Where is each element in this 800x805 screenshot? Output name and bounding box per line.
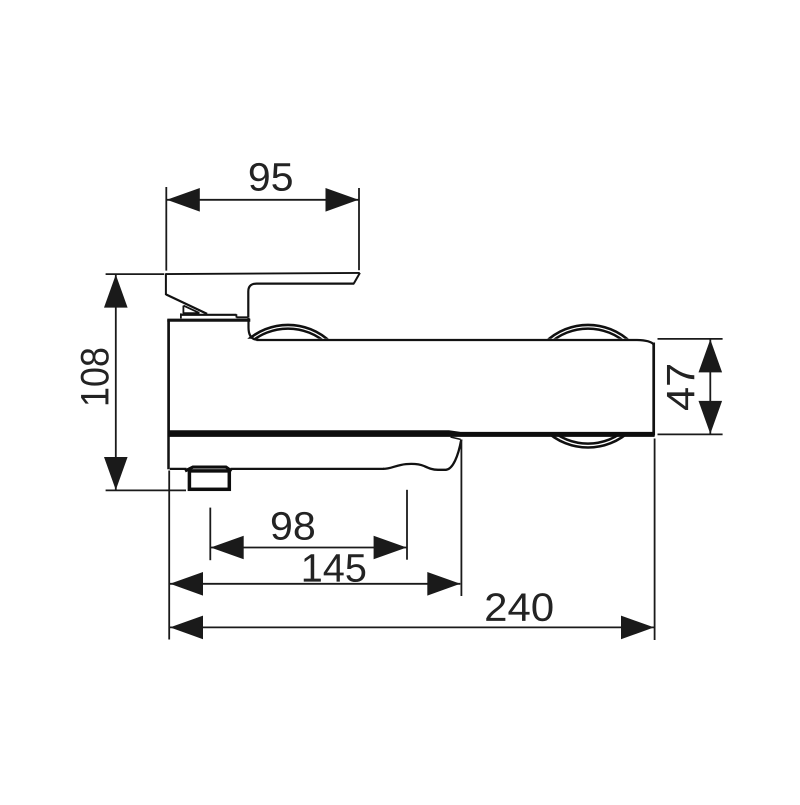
handle set-screw wedge bbox=[183, 306, 200, 314]
dim 145 and 240 shared left extension line bbox=[168, 471, 170, 640]
lever underside and base right edge bbox=[248, 284, 354, 318]
dim 47 bottom extension line bbox=[658, 433, 723, 435]
dim 98 right extension line bbox=[406, 490, 408, 560]
handle collar lower line bbox=[236, 316, 247, 318]
dim 47 bottom arrow bbox=[699, 401, 723, 434]
dim 98 left extension line bbox=[209, 508, 211, 561]
dim 240 left arrow bbox=[170, 616, 203, 640]
dim 47 label bbox=[667, 365, 694, 410]
dim 240 right extension line bbox=[654, 439, 656, 641]
dim 95 right extension line bbox=[358, 188, 360, 270]
dim 108 bottom extension line bbox=[106, 489, 186, 491]
dim 108 label bbox=[81, 349, 109, 405]
dim 95 dimension line bbox=[167, 199, 359, 201]
body top edge bbox=[257, 340, 654, 345]
dim 145 left arrow bbox=[170, 572, 203, 596]
handle left edge bbox=[165, 273, 167, 295]
body-spout joint end bevel bbox=[451, 437, 461, 439]
dim 240 dimension line bbox=[170, 626, 654, 628]
left wall flange inner circle bbox=[231, 329, 346, 444]
dim 108 dimension line bbox=[115, 275, 117, 491]
aerator lip bbox=[185, 467, 232, 471]
faucet body fill bbox=[167, 339, 654, 434]
dim 145 dimension line bbox=[170, 583, 460, 585]
dim 95 left extension line bbox=[165, 187, 167, 271]
aerator body bbox=[189, 471, 229, 489]
dim 108 bottom arrow bbox=[104, 457, 128, 490]
right wall flange outer circle bbox=[527, 325, 650, 448]
handle collar left tick bbox=[180, 313, 182, 318]
dim 98 dimension line bbox=[211, 547, 407, 549]
dim 145 right extension line bbox=[460, 440, 462, 597]
body neck step bbox=[249, 318, 259, 340]
body-spout joint thick line bbox=[168, 430, 655, 437]
lever top edge bbox=[166, 273, 360, 274]
handle collar upper line bbox=[181, 314, 237, 316]
lever tip bevel bbox=[354, 273, 360, 284]
body and spout left edge bbox=[167, 320, 170, 470]
dim 108 top extension line bbox=[106, 273, 165, 275]
handle collar right tick bbox=[235, 314, 237, 317]
dim 108 top arrow bbox=[104, 275, 128, 308]
dim 47 top arrow bbox=[699, 339, 723, 372]
dim 98 label bbox=[272, 512, 314, 540]
dim 95 label bbox=[250, 163, 292, 191]
dim 95 left arrow bbox=[167, 188, 200, 212]
dim 145 right arrow bbox=[427, 572, 460, 596]
dim 98 left arrow bbox=[211, 536, 244, 560]
handle fill bbox=[166, 273, 360, 317]
handle front diagonal bbox=[166, 294, 207, 314]
dim 240 label bbox=[486, 593, 552, 621]
right wall flange inner circle bbox=[531, 329, 646, 444]
body right edge bbox=[652, 343, 655, 436]
spout bottom edge left segment bbox=[170, 468, 187, 470]
dim 95 right arrow bbox=[326, 188, 359, 212]
spout underside wave and tip curve bbox=[383, 439, 461, 469]
left wall flange outer circle bbox=[227, 325, 350, 448]
body top shoulder under handle bbox=[167, 319, 250, 322]
dim 240 right arrow bbox=[621, 616, 654, 640]
spout fill bbox=[170, 436, 462, 470]
spout bottom edge right segment bbox=[231, 468, 385, 470]
dim 47 dimension line bbox=[709, 339, 711, 434]
dim 145 label bbox=[304, 554, 365, 582]
dim 98 right arrow bbox=[374, 536, 407, 560]
dim 47 top extension line bbox=[658, 338, 723, 340]
